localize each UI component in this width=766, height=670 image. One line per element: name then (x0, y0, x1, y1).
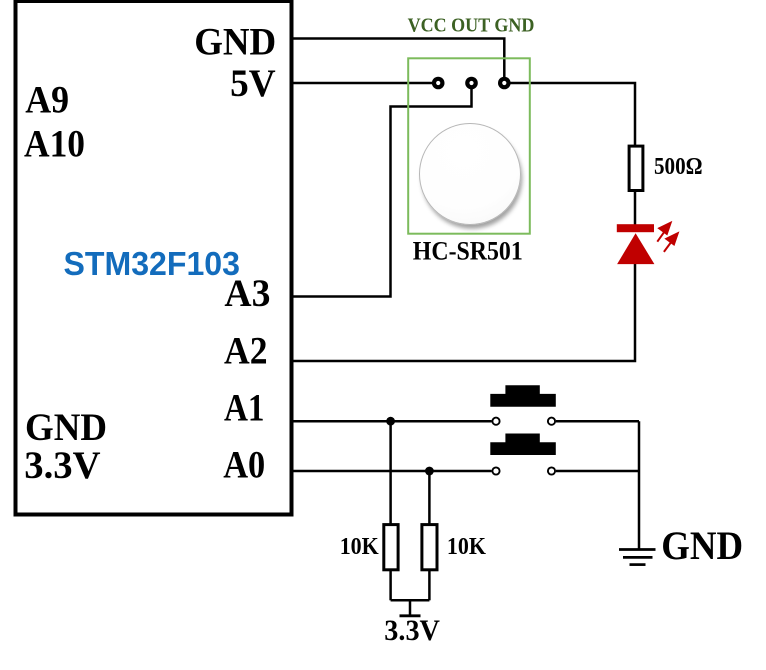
svg-text:VCC OUT GND: VCC OUT GND (408, 15, 535, 37)
svg-text:A10: A10 (24, 122, 85, 165)
svg-text:GND: GND (25, 406, 107, 449)
svg-text:A0: A0 (223, 443, 265, 486)
svg-text:3.3V: 3.3V (384, 615, 440, 647)
svg-text:10K: 10K (447, 534, 486, 560)
svg-text:A2: A2 (224, 329, 268, 372)
svg-text:A1: A1 (224, 387, 265, 430)
svg-text:STM32F103: STM32F103 (64, 245, 241, 282)
svg-text:10K: 10K (340, 534, 379, 560)
svg-text:3.3V: 3.3V (24, 444, 100, 487)
svg-text:GND: GND (661, 523, 743, 568)
svg-text:A9: A9 (25, 79, 69, 122)
svg-text:HC-SR501: HC-SR501 (413, 237, 523, 266)
svg-text:GND: GND (194, 21, 276, 64)
svg-text:5V: 5V (230, 62, 276, 105)
svg-text:500Ω: 500Ω (654, 154, 703, 180)
